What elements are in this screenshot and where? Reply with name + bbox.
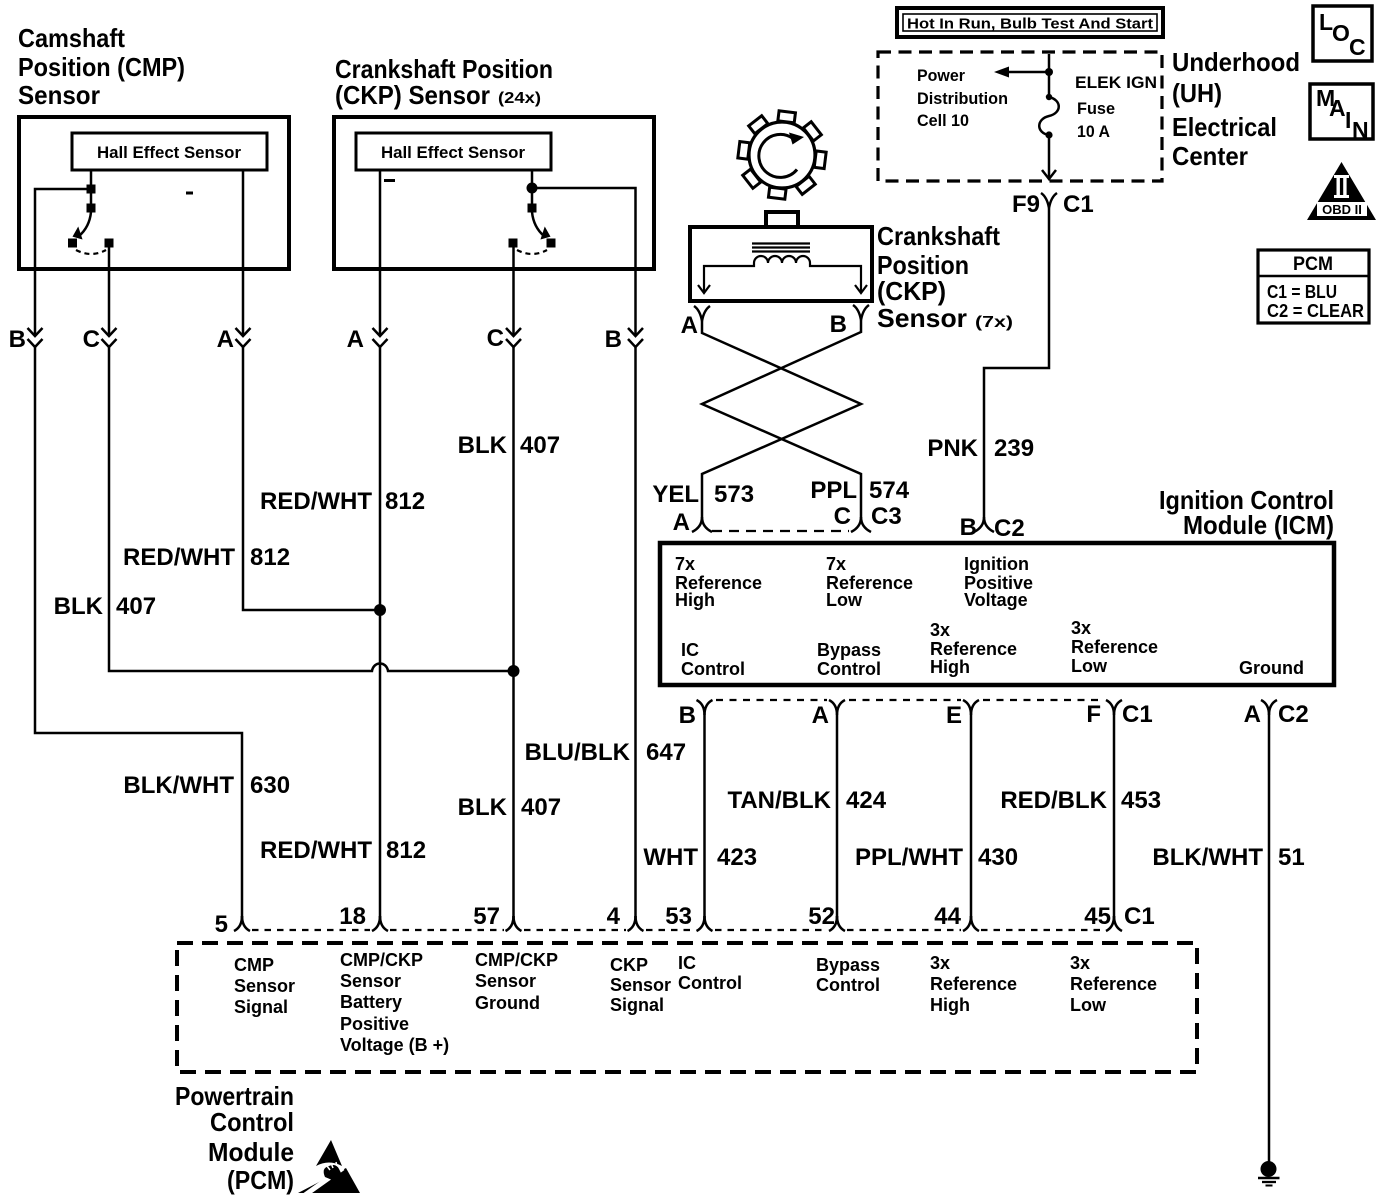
connector arrow CMP C xyxy=(83,326,117,353)
svg-text:Low: Low xyxy=(1070,995,1107,1015)
svg-text:RED/WHT: RED/WHT xyxy=(260,488,372,515)
wire BLK 407 (CMP C to junction) xyxy=(109,347,508,671)
svg-text:Reference: Reference xyxy=(1070,974,1157,994)
svg-text:3x: 3x xyxy=(930,620,950,640)
stray mark in CMP box xyxy=(186,192,193,195)
svg-text:Sensor: Sensor xyxy=(234,976,295,996)
PCM label CKP Sensor Signal xyxy=(610,955,671,1015)
connector arrow CMP A xyxy=(217,326,251,353)
wire CMP A sensor to arrow xyxy=(242,269,245,336)
svg-text:PPL/WHT: PPL/WHT xyxy=(855,844,963,871)
wire BLK/WHT 630 run (CMP B to PCM pin 5) xyxy=(35,347,242,921)
PCM pin 52 xyxy=(808,903,845,931)
svg-text:BLK/WHT: BLK/WHT xyxy=(123,772,234,799)
OBD II symbol xyxy=(1307,162,1376,220)
svg-text:Position (CMP): Position (CMP) xyxy=(18,52,185,82)
svg-text:C1: C1 xyxy=(1063,191,1094,218)
label BLK 407 (lower) xyxy=(458,794,561,821)
svg-text:812: 812 xyxy=(386,837,426,864)
svg-text:7x: 7x xyxy=(675,554,695,574)
svg-text:C1 = BLU: C1 = BLU xyxy=(1267,282,1337,302)
LOC reference box xyxy=(1313,6,1372,61)
wire CKP B sensor to arrow xyxy=(634,269,637,336)
svg-text:O: O xyxy=(1332,20,1350,46)
svg-text:407: 407 xyxy=(520,432,560,459)
svg-text:C2: C2 xyxy=(994,515,1025,542)
svg-text:51: 51 xyxy=(1278,844,1305,871)
svg-text:407: 407 xyxy=(116,593,156,620)
svg-text:BLU/BLK: BLU/BLK xyxy=(525,739,631,766)
svg-text:Bypass: Bypass xyxy=(816,955,880,975)
PCM pin 4 xyxy=(607,903,644,931)
svg-text:Fuse: Fuse xyxy=(1077,99,1115,118)
wire BLU/BLK 647 (CKP B to PCM pin 4) xyxy=(634,347,637,921)
svg-text:Positive: Positive xyxy=(340,1014,409,1034)
label RED/WHT 812 (CMP A) xyxy=(123,544,290,571)
dashed connector line E to F xyxy=(983,699,1104,701)
label BLK 407 (CMP C) xyxy=(54,593,156,620)
svg-text:C2 = CLEAR: C2 = CLEAR xyxy=(1267,301,1364,321)
svg-text:45: 45 xyxy=(1084,903,1111,930)
svg-text:573: 573 xyxy=(714,481,754,508)
label Underhood (UH) Electrical Center xyxy=(1172,47,1300,171)
svg-text:Sensor: Sensor xyxy=(340,971,401,991)
ICM label Ignition Positive Voltage xyxy=(964,554,1033,610)
connector arrow CKP A xyxy=(347,326,388,353)
pin B of CKP 7x xyxy=(830,305,869,338)
PCM label CMP/CKP Sensor Ground xyxy=(475,950,558,1013)
svg-text:(CKP): (CKP) xyxy=(877,276,946,306)
svg-text:Control: Control xyxy=(681,659,745,679)
PCM label IC Control xyxy=(678,953,742,993)
svg-text:RED/BLK: RED/BLK xyxy=(1000,787,1107,814)
svg-text:WHT: WHT xyxy=(643,844,698,871)
svg-text:7x: 7x xyxy=(826,554,846,574)
wire CMP C internal xyxy=(108,247,111,269)
wire CMP C sensor to arrow xyxy=(108,269,111,336)
wire from hot feed into UH center xyxy=(1048,54,1051,96)
svg-text:A: A xyxy=(681,312,698,339)
CKP switch S2 xyxy=(509,170,556,254)
label Power Distribution Cell 10 xyxy=(917,66,1008,130)
svg-text:CMP/CKP: CMP/CKP xyxy=(340,950,423,970)
svg-text:Signal: Signal xyxy=(610,995,664,1015)
svg-text:B: B xyxy=(679,702,696,729)
svg-text:5: 5 xyxy=(215,911,228,938)
svg-text:647: 647 xyxy=(646,739,686,766)
pickup coil L1 xyxy=(754,256,810,263)
CKP 7x sensor box xyxy=(690,227,872,301)
PCM pin 53 xyxy=(665,903,712,931)
wire RED/WHT 812 (CMP A to junction) xyxy=(243,347,379,610)
hall effect sensor box (CKP) xyxy=(356,133,551,170)
ESD notice symbol upper xyxy=(316,1140,342,1166)
hall effect sensor box (CMP) xyxy=(72,133,267,170)
svg-text:I: I xyxy=(1345,107,1351,133)
wire CKP C internal xyxy=(512,247,515,269)
CKP sensor box xyxy=(334,117,654,269)
svg-text:C: C xyxy=(1349,34,1366,60)
svg-text:4: 4 xyxy=(607,903,621,930)
svg-text:CKP: CKP xyxy=(610,955,648,975)
svg-text:Ground: Ground xyxy=(475,993,540,1013)
PCM connector face dashes xyxy=(252,929,1104,931)
junction dot power branch xyxy=(1045,68,1053,76)
svg-text:Sensor: Sensor xyxy=(18,80,100,110)
MAIN reference box xyxy=(1310,84,1373,143)
svg-text:3x: 3x xyxy=(1070,953,1090,973)
ICM label Bypass Control xyxy=(817,640,881,679)
wire WHT 423 (ICM B to PCM 53) xyxy=(703,715,706,921)
ICM bottom pin E xyxy=(946,700,979,729)
svg-text:RED/WHT: RED/WHT xyxy=(123,544,235,571)
wire BLK 407 (CKP C to PCM pin 57) xyxy=(512,347,515,921)
label RED/BLK 453 xyxy=(1000,787,1161,814)
svg-text:57: 57 xyxy=(473,903,500,930)
wire CMP B (BLK/WHT 630) sensor to bend xyxy=(34,269,37,336)
svg-text:B: B xyxy=(960,514,977,541)
svg-text:C: C xyxy=(83,326,100,353)
powertrain control module dashed box xyxy=(177,943,1197,1072)
label ELEK IGN Fuse 10 A xyxy=(1075,73,1157,141)
wire RED/BLK 453 (ICM F to PCM 45) xyxy=(1113,715,1116,921)
ignition control module box xyxy=(660,543,1334,685)
PCM label Bypass Control xyxy=(816,955,880,995)
ICM label IC Control xyxy=(681,640,745,679)
svg-text:C: C xyxy=(487,325,504,352)
label BLK/WHT 630 xyxy=(123,772,290,799)
ICM top connector pin B / C2 xyxy=(960,514,1025,542)
connector arrow CKP B xyxy=(605,326,643,353)
svg-text:Cell 10: Cell 10 xyxy=(917,111,969,130)
ICM bottom pin A / C2 (ground) xyxy=(1244,700,1309,728)
ICM top connector pin C / C3 xyxy=(834,503,902,532)
svg-text:10 A: 10 A xyxy=(1077,122,1110,141)
svg-text:52: 52 xyxy=(808,903,835,930)
svg-text:430: 430 xyxy=(978,844,1018,871)
connector arrow CKP C xyxy=(487,325,521,352)
svg-text:CMP/CKP: CMP/CKP xyxy=(475,950,558,970)
pin A of CKP 7x xyxy=(681,306,710,339)
twisted pair wire YEL 573 xyxy=(702,321,861,517)
svg-text:C: C xyxy=(834,503,851,530)
pickup coil core xyxy=(752,244,810,252)
svg-text:C1: C1 xyxy=(1122,701,1153,728)
PCM connector legend box xyxy=(1258,250,1369,323)
PCM pin 45 / C1 xyxy=(1084,903,1154,931)
label BLU/BLK 647 xyxy=(525,739,686,766)
svg-text:Voltage: Voltage xyxy=(964,590,1028,610)
svg-text:453: 453 xyxy=(1121,787,1161,814)
svg-text:PCM: PCM xyxy=(1293,254,1333,275)
svg-text:Control: Control xyxy=(817,659,881,679)
svg-text:44: 44 xyxy=(934,903,961,930)
title Powertrain Control Module (PCM) xyxy=(175,1081,294,1195)
svg-text:53: 53 xyxy=(665,903,692,930)
svg-text:Sensor: Sensor xyxy=(475,971,536,991)
svg-text:(PCM): (PCM) xyxy=(227,1165,294,1195)
svg-text:(CKP) Sensor: (CKP) Sensor xyxy=(335,80,490,110)
svg-text:PPL: PPL xyxy=(810,477,857,504)
Hot In Run Bulb Test And Start box xyxy=(897,8,1163,37)
svg-text:A: A xyxy=(1244,701,1261,728)
fuse ELEK IGN 10A xyxy=(1039,94,1059,139)
svg-text:OBD II: OBD II xyxy=(1322,202,1362,217)
svg-text:Power: Power xyxy=(917,66,965,85)
dashed connector line A to C xyxy=(712,530,849,532)
CMP sensor box xyxy=(19,117,289,269)
svg-text:Reference: Reference xyxy=(930,974,1017,994)
svg-text:F9: F9 xyxy=(1012,191,1040,218)
svg-text:CMP: CMP xyxy=(234,955,274,975)
svg-text:TAN/BLK: TAN/BLK xyxy=(727,787,831,814)
svg-text:Voltage (B +): Voltage (B +) xyxy=(340,1035,449,1055)
label PPL/WHT 430 xyxy=(855,844,1018,871)
label YEL 573 xyxy=(652,481,754,508)
ESD notice symbol lower (triangle with hand) xyxy=(298,1162,360,1195)
svg-text:High: High xyxy=(675,590,715,610)
svg-text:A: A xyxy=(347,326,364,353)
wire PNK 239 (F9 to ICM B) xyxy=(984,208,1049,517)
svg-text:A: A xyxy=(673,509,690,536)
PCM pin 44 xyxy=(934,903,979,931)
svg-text:Electrical: Electrical xyxy=(1172,112,1277,142)
svg-text:BLK/WHT: BLK/WHT xyxy=(1152,844,1263,871)
label TAN/BLK 424 xyxy=(727,787,886,814)
label RED/WHT 812 (CKP A upper) xyxy=(260,488,425,515)
wire CKP B internal (switch to right) xyxy=(537,188,636,269)
svg-text:B: B xyxy=(9,326,26,353)
connector pin F9 / C1 xyxy=(1012,191,1094,218)
label BLK/WHT 51 xyxy=(1152,844,1304,871)
svg-text:Control: Control xyxy=(816,975,880,995)
svg-text:Sensor: Sensor xyxy=(610,975,671,995)
svg-text:Reference: Reference xyxy=(930,639,1017,659)
wire CKP C sensor to arrow xyxy=(512,269,515,336)
svg-text:Ground: Ground xyxy=(1239,658,1304,678)
svg-text:Module: Module xyxy=(208,1137,294,1167)
svg-text:C2: C2 xyxy=(1278,701,1309,728)
wire BLK/WHT 51 (ICM ground to G101) xyxy=(1268,715,1271,1162)
svg-text:407: 407 xyxy=(521,794,561,821)
svg-text:Reference: Reference xyxy=(1071,637,1158,657)
svg-text:3x: 3x xyxy=(1071,618,1091,638)
svg-text:812: 812 xyxy=(385,488,425,515)
CKP 7x sensor mounting tab xyxy=(766,212,798,227)
svg-text:Sensor: Sensor xyxy=(877,303,967,333)
svg-text:C3: C3 xyxy=(871,503,902,530)
svg-text:Center: Center xyxy=(1172,141,1248,171)
connector arrow CMP B xyxy=(9,326,43,353)
wire PPL/WHT 430 (ICM E to PCM 44) xyxy=(970,715,973,921)
svg-text:Battery: Battery xyxy=(340,992,402,1012)
svg-text:Bypass: Bypass xyxy=(817,640,881,660)
label RED/WHT 812 (lower) xyxy=(260,837,426,864)
svg-text:Underhood: Underhood xyxy=(1172,47,1300,77)
title Crankshaft Position (CKP) Sensor (7x) xyxy=(877,221,1013,333)
svg-text:Hall Effect Sensor: Hall Effect Sensor xyxy=(381,143,525,162)
svg-text:BLK: BLK xyxy=(458,794,508,821)
svg-text:3x: 3x xyxy=(930,953,950,973)
wire RED/WHT 812 (CKP A to PCM pin 18) xyxy=(379,347,382,921)
svg-text:Distribution: Distribution xyxy=(917,89,1008,108)
svg-text:High: High xyxy=(930,995,970,1015)
svg-text:Module (ICM): Module (ICM) xyxy=(1183,510,1334,540)
PCM label 3x Reference High xyxy=(930,953,1017,1015)
PCM label 3x Reference Low xyxy=(1070,953,1157,1015)
svg-text:Hall Effect Sensor: Hall Effect Sensor xyxy=(97,143,241,162)
svg-text:Camshaft: Camshaft xyxy=(18,23,125,53)
svg-text:(7x): (7x) xyxy=(975,314,1013,331)
svg-text:YEL: YEL xyxy=(652,481,699,508)
svg-text:812: 812 xyxy=(250,544,290,571)
title Ignition Control Module (ICM) xyxy=(1159,485,1334,540)
title Crankshaft Position (CKP) Sensor (24x) xyxy=(335,54,553,110)
ICM bottom pin F / C1 xyxy=(1086,700,1152,728)
svg-text:423: 423 xyxy=(717,844,757,871)
svg-text:Control: Control xyxy=(210,1107,294,1137)
arrow branch to power distribution xyxy=(994,67,1049,78)
svg-text:PNK: PNK xyxy=(927,435,978,462)
svg-text:N: N xyxy=(1352,117,1369,143)
svg-text:E: E xyxy=(946,702,962,729)
coil lead to pin A with arrow xyxy=(698,263,754,293)
ICM label 3x Reference High xyxy=(930,620,1017,677)
svg-text:B: B xyxy=(830,311,847,338)
PCM pin 5 xyxy=(215,911,250,938)
PCM pin 57 xyxy=(473,903,521,931)
ICM bottom pin B xyxy=(679,700,713,729)
svg-text:574: 574 xyxy=(869,477,910,504)
reluctor wheel icon xyxy=(738,111,826,199)
svg-text:Hot In Run, Bulb Test And Star: Hot In Run, Bulb Test And Start xyxy=(907,16,1153,33)
svg-text:Control: Control xyxy=(678,973,742,993)
wire TAN/BLK 424 (ICM A to PCM 52) xyxy=(836,715,839,921)
stray mark in CKP box xyxy=(384,179,395,182)
svg-text:F: F xyxy=(1086,701,1101,728)
label WHT 423 xyxy=(643,844,757,871)
svg-text:BLK: BLK xyxy=(54,593,104,620)
CMP switch S1 xyxy=(68,170,114,254)
svg-text:630: 630 xyxy=(250,772,290,799)
ICM top connector pin A xyxy=(673,509,712,536)
svg-text:Ignition: Ignition xyxy=(964,554,1029,574)
svg-text:A: A xyxy=(217,326,234,353)
label PPL 574 xyxy=(810,477,909,504)
svg-text:Low: Low xyxy=(826,590,863,610)
svg-text:B: B xyxy=(605,326,622,353)
PCM pin 18 xyxy=(339,903,388,931)
wire CKP A internal xyxy=(379,170,382,269)
svg-text:Low: Low xyxy=(1071,656,1108,676)
svg-text:18: 18 xyxy=(339,903,366,930)
svg-text:RED/WHT: RED/WHT xyxy=(260,837,372,864)
ICM bottom pin A xyxy=(812,700,845,729)
coil lead to pin B with arrow xyxy=(810,263,867,293)
svg-text:Crankshaft: Crankshaft xyxy=(877,221,1000,251)
title Camshaft Position (CMP) Sensor xyxy=(18,23,185,110)
dashed connector line A to E xyxy=(849,699,961,701)
dashed connector line B to A xyxy=(716,699,827,701)
svg-text:ELEK IGN: ELEK IGN xyxy=(1075,73,1157,92)
ICM label 7x Reference Low xyxy=(826,554,913,610)
svg-text:Signal: Signal xyxy=(234,997,288,1017)
ICM label 7x Reference High xyxy=(675,554,762,610)
label BLK 407 (CKP C upper) xyxy=(458,432,560,459)
ground G101 xyxy=(1258,1161,1280,1186)
svg-text:High: High xyxy=(930,657,970,677)
PCM label CMP Sensor Signal xyxy=(234,955,295,1017)
svg-text:BLK: BLK xyxy=(458,432,508,459)
junction dot BLK xyxy=(508,665,520,677)
Underhood Electrical Center dashed box xyxy=(878,52,1162,181)
junction dot RED/WHT xyxy=(374,604,386,616)
svg-text:A: A xyxy=(1329,95,1346,121)
svg-text:L: L xyxy=(1319,9,1333,35)
wire CMP A internal xyxy=(242,170,245,269)
svg-text:IC: IC xyxy=(678,953,696,973)
PCM label CMP/CKP Sensor Battery Positive Voltage xyxy=(340,950,449,1055)
svg-text:239: 239 xyxy=(994,435,1034,462)
wire CKP A sensor to arrow xyxy=(379,269,382,336)
svg-text:A: A xyxy=(812,702,829,729)
svg-text:(24x): (24x) xyxy=(498,90,541,107)
wire CMP B internal (switch to left) xyxy=(35,189,87,269)
svg-text:IC: IC xyxy=(681,640,699,660)
ICM label 3x Reference Low xyxy=(1071,618,1158,676)
svg-text:C1: C1 xyxy=(1124,903,1155,930)
svg-text:424: 424 xyxy=(846,787,887,814)
twisted pair wire PPL 574 xyxy=(702,320,861,517)
wire fuse to F9 with arrowhead xyxy=(1042,135,1056,179)
label PNK 239 xyxy=(927,435,1034,462)
svg-text:(UH): (UH) xyxy=(1172,78,1222,108)
